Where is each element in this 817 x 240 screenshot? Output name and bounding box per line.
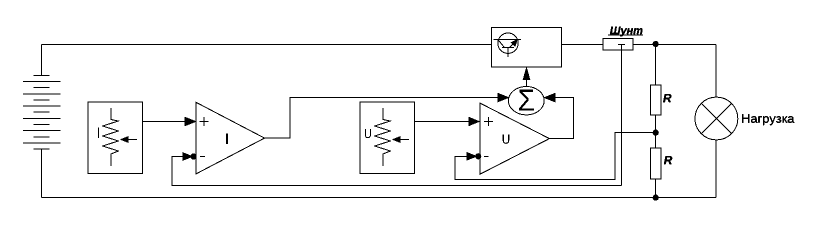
wire top rail (42, 44, 492, 46)
wire node A to resistor R upper (655, 45, 657, 86)
transistor emitter diagonal (509, 40, 517, 48)
wire bottom rail (42, 197, 717, 199)
arrow into summer left (498, 93, 509, 101)
label Шунт (610, 27, 643, 37)
transistor emitter arrow (511, 40, 517, 46)
resistor R upper (650, 85, 661, 115)
arrow into summer right (545, 93, 556, 101)
label U (op-amp) (503, 134, 510, 143)
node divider midpoint (653, 130, 659, 136)
wire U box to op-amp U noninverting input (415, 121, 479, 123)
shunt tap T (618, 44, 625, 46)
wire shunt to right rail (633, 44, 716, 46)
battery GB1 (23, 75, 61, 149)
box U setpoint (voltage reference) (360, 102, 415, 174)
potentiometer zigzag (I setpoint) (103, 108, 119, 166)
wire right rail down to lamp (715, 45, 717, 98)
op-amp U (voltage error amplifier) (480, 103, 549, 174)
plus sign op-amp U (484, 117, 493, 126)
arrow into op-amp U inverting input (467, 153, 476, 160)
wire summer to transistor block (526, 79, 528, 87)
wire battery negative lead (41, 149, 43, 197)
wiper arrow (U setpoint) (399, 139, 409, 141)
summer Σ (508, 87, 544, 115)
node dot op-amp U inverting input (475, 153, 481, 159)
shunt resistor box (603, 39, 633, 51)
label I (op-amp) (226, 133, 228, 144)
wire op-amp I output to summer (265, 98, 502, 139)
transistor block Q1 (492, 28, 562, 68)
transistor base lead (507, 48, 509, 58)
wiper arrow (I setpoint) (127, 139, 137, 141)
wire I box to op-amp I noninverting input (143, 121, 196, 123)
label U (setpoint box) (365, 129, 371, 138)
wire transistor block to shunt (561, 44, 603, 46)
label Нагрузка (742, 114, 794, 125)
label R upper (663, 94, 671, 102)
transistor circle (498, 33, 518, 53)
minus sign op-amp I (200, 156, 205, 158)
transistor base bar (502, 47, 514, 49)
node dot op-amp I inverting input (191, 153, 197, 159)
wire op-amp U output to summer (549, 98, 573, 139)
lamp load (695, 97, 738, 140)
node A (shunt output junction) (653, 41, 659, 47)
label R lower (664, 156, 672, 164)
label I (setpoint box) (98, 128, 99, 138)
wire current feedback into op-amp I inverting input (172, 157, 621, 186)
wire shunt tap down to current feedback (620, 45, 622, 186)
wire lamp bottom to bottom rail (715, 140, 717, 198)
transistor collector-emitter chord (494, 38, 521, 40)
op-amp I (current error amplifier) (196, 102, 265, 174)
wire battery positive lead (41, 45, 43, 76)
wire voltage feedback from divider into op-amp U inverting input (455, 133, 656, 180)
plus sign op-amp I (199, 117, 208, 126)
minus sign op-amp U (484, 155, 489, 157)
wire R lower to bottom rail (655, 179, 657, 197)
potentiometer zigzag (U setpoint) (375, 108, 391, 166)
resistor R lower (650, 148, 661, 179)
box I setpoint (current reference) (88, 102, 143, 174)
node bottom rail junction (653, 195, 659, 201)
label Шунт underline (608, 34, 643, 36)
transistor collector diagonal (498, 39, 505, 47)
arrow into op-amp I inverting input (183, 153, 192, 160)
arrow into transistor block (523, 68, 529, 80)
wire R upper to divider node (655, 115, 657, 148)
